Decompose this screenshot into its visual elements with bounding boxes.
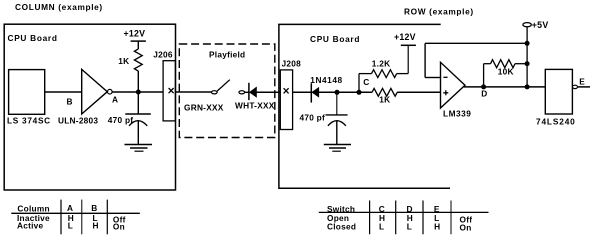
title ROW (example) <box>404 7 474 17</box>
wire node C up to resistor R2 <box>358 74 360 93</box>
label 1K (left) <box>118 56 129 66</box>
svg-text:A: A <box>67 203 73 213</box>
diode D2 1N4148 arrow <box>312 88 319 98</box>
label LM339 <box>443 109 471 119</box>
node C junction dot <box>357 90 362 95</box>
wire reference line to +5V <box>425 42 527 44</box>
wire capacitor C2 to ground <box>336 121 338 145</box>
switch S1 left contact <box>211 91 217 94</box>
node E label <box>579 76 585 86</box>
buffer U2 ULN-2803 triangle <box>82 69 108 114</box>
svg-text:On: On <box>113 222 125 232</box>
svg-text:1.2K: 1.2K <box>372 59 391 69</box>
wire LM339 - input <box>425 77 440 79</box>
left CPU Board box <box>4 24 175 190</box>
svg-text:L: L <box>68 221 73 231</box>
label CPU Board (left) <box>8 33 58 43</box>
wire to resistor R4 <box>484 63 491 65</box>
svg-text:L: L <box>407 221 412 231</box>
label 10K <box>498 66 514 76</box>
label 1N4148 <box>310 75 342 85</box>
resistor R4 10K <box>491 60 516 68</box>
connector J206 label <box>153 50 173 60</box>
wire LM339 output to 74LS240 <box>464 86 546 88</box>
svg-text:+12V: +12V <box>124 28 146 38</box>
label 470 pf (left) <box>108 115 133 125</box>
node A label <box>112 94 118 104</box>
resistor R3 1K (series) <box>372 88 397 96</box>
svg-text:CPU Board: CPU Board <box>8 33 58 43</box>
svg-text:GRN-XXX: GRN-XXX <box>184 103 224 113</box>
label 470 pf (right) <box>300 113 325 123</box>
power +5V terminal circle <box>523 23 531 27</box>
LM339 plus input symbol <box>443 90 448 95</box>
connector J206 pin X <box>169 88 174 93</box>
switch S1 right contact <box>239 91 245 94</box>
svg-text:LS 374SC: LS 374SC <box>7 116 51 126</box>
wire node D up to resistor R4 <box>483 64 485 87</box>
svg-text:LM339: LM339 <box>443 109 471 119</box>
wire resistor R4 to +5V line <box>515 63 527 65</box>
power +12V (left) bar symbol <box>131 40 146 42</box>
svg-text:L: L <box>379 221 384 231</box>
wire label WHT-XXX <box>235 101 275 111</box>
resistor R2 1.2K <box>372 70 397 78</box>
svg-text:Playfield: Playfield <box>209 50 245 60</box>
comparator U3 LM339 triangle <box>441 62 466 108</box>
label LS 374SC <box>7 116 51 126</box>
inverter bubble on ULN-2803 output <box>108 89 113 94</box>
svg-text:H: H <box>93 221 99 231</box>
resistor R1 1K (left pull-up) <box>134 49 142 71</box>
wire resistor R3 to LM339 + input <box>397 91 440 93</box>
label ULN-2803 <box>58 116 98 126</box>
svg-text:C: C <box>363 77 369 87</box>
junction dot 10K/+5V <box>525 61 530 66</box>
title COLUMN (example) <box>15 2 103 12</box>
svg-text:E: E <box>579 76 585 86</box>
Playfield dashed box <box>179 44 274 138</box>
svg-text:On: On <box>460 223 472 233</box>
power +5V label <box>532 20 549 30</box>
IC U4 74LS240 box <box>545 69 572 114</box>
node C label <box>363 77 369 87</box>
wire diode D1 to J208 <box>257 91 281 93</box>
power +12V (right) bar symbol <box>401 44 416 46</box>
svg-text:WHT-XXX: WHT-XXX <box>235 101 275 111</box>
capacitor C2 470 pf top plate <box>326 114 348 116</box>
LM339 minus input symbol <box>443 76 447 78</box>
svg-text:+12V: +12V <box>394 32 416 42</box>
diode D1 arrow <box>250 87 257 97</box>
label CPU Board (right) <box>310 34 360 44</box>
svg-text:ULN-2803: ULN-2803 <box>58 116 98 126</box>
label Playfield <box>209 50 245 60</box>
ground (left) <box>125 145 153 152</box>
svg-text:B: B <box>91 203 97 213</box>
wire J206 to switch <box>175 91 211 93</box>
node B label <box>67 97 73 107</box>
connector J208 pin X <box>284 88 289 93</box>
svg-text:10K: 10K <box>498 66 514 76</box>
wire +12V bar to resistor R1 <box>137 41 139 49</box>
svg-text:J206: J206 <box>153 50 173 60</box>
wire resistor R2 to +12V <box>397 73 409 75</box>
ground (right) <box>324 145 351 152</box>
diode D2 1N4148 cathode bar <box>310 83 312 102</box>
wire ULN output to J206 <box>112 91 163 93</box>
right CPU Board box (open right side) <box>279 24 450 188</box>
switch truth table <box>319 201 489 235</box>
connector J206 box <box>163 61 175 121</box>
label 1.2K <box>372 59 391 69</box>
IC U1 LS 374SC box <box>9 70 45 115</box>
capacitor C2 curved bottom plate <box>328 121 346 126</box>
diode D1 cathode bar <box>248 83 250 100</box>
svg-text:ROW (example): ROW (example) <box>404 7 474 17</box>
svg-text:+5V: +5V <box>532 20 549 30</box>
svg-text:Active: Active <box>17 221 44 231</box>
svg-text:COLUMN (example): COLUMN (example) <box>15 2 103 12</box>
svg-text:74LS240: 74LS240 <box>536 117 576 127</box>
wire +12V bar down to resistor R2 <box>407 45 409 73</box>
node D junction dot <box>481 84 486 89</box>
wire junction down to capacitor C2 <box>336 92 338 115</box>
column truth table <box>11 200 140 235</box>
junction dot at capacitor C2 <box>335 90 340 95</box>
wire reference riser <box>424 43 426 77</box>
power +12V (right) label <box>394 32 416 42</box>
wire J208 to diode D2 <box>293 91 312 93</box>
connector J208 label <box>282 58 302 68</box>
svg-text:1K: 1K <box>379 95 390 105</box>
svg-text:D: D <box>481 89 487 99</box>
node D label <box>481 89 487 99</box>
connector J208 box <box>280 70 292 130</box>
svg-text:Column: Column <box>17 203 49 213</box>
wire LS374 output to ULN input <box>45 91 82 93</box>
wire label GRN-XXX <box>184 103 224 113</box>
capacitor C1 470 pf top plate <box>125 113 151 115</box>
wire switch to diode D1 <box>245 91 249 93</box>
power +12V (left) label <box>124 28 146 38</box>
svg-text:Closed: Closed <box>327 221 356 231</box>
label 1K (right) <box>379 95 390 105</box>
svg-text:1K: 1K <box>118 56 129 66</box>
capacitor C1 curved bottom plate <box>129 121 147 126</box>
wire node A down to capacitor C1 <box>137 93 139 115</box>
74LS240 output bubble <box>573 85 578 88</box>
junction dot +5V line at output wire <box>525 84 530 89</box>
wire 74LS240 output to E <box>578 86 590 88</box>
wire to resistor R2 1.2K <box>359 73 372 75</box>
node A junction dot <box>136 90 141 95</box>
junction dot reference/+5V <box>525 41 530 46</box>
wire diode D2 to node C <box>319 91 372 93</box>
svg-text:A: A <box>112 94 118 104</box>
wire resistor R1 to node A <box>137 71 139 93</box>
svg-text:470 pf: 470 pf <box>300 113 325 123</box>
switch S1 lever <box>217 80 230 91</box>
wire +5V down <box>526 27 528 87</box>
svg-text:B: B <box>67 97 73 107</box>
svg-text:J208: J208 <box>282 58 302 68</box>
wire capacitor C1 to ground <box>137 121 139 145</box>
svg-text:CPU Board: CPU Board <box>310 34 360 44</box>
svg-text:470 pf: 470 pf <box>108 115 133 125</box>
svg-text:1N4148: 1N4148 <box>310 75 342 85</box>
label 74LS240 <box>536 117 576 127</box>
svg-text:H: H <box>434 221 440 231</box>
